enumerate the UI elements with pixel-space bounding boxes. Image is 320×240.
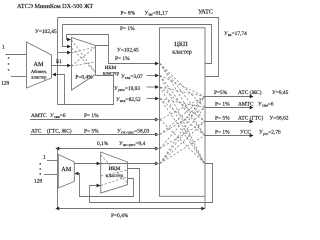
svg-text:ИКМ: ИКМ [105, 65, 117, 71]
arrow into ИКМ Б1 [67, 64, 71, 68]
dashed connection ЦКП w10 [160, 99, 205, 136]
svg-text:АМ: АМ [61, 166, 71, 173]
arrow output АМТС [250, 106, 254, 110]
svg-text:Р=5%: Р=5% [214, 90, 228, 96]
wire loop1 left vertical [57, 18, 59, 105]
wire АМ to ИКМ to ЦКП bottom [74, 163, 158, 165]
svg-text:АТС: АТС [31, 129, 42, 135]
svg-text:ЦКП: ЦКП [174, 41, 188, 48]
svg-text:Р= 5%: Р= 5% [215, 115, 230, 121]
svg-text:(ГТС, ЖС): (ГТС, ЖС) [47, 129, 72, 135]
svg-text:Уисх=82,52: Уисх=82,52 [116, 97, 141, 103]
dashed connection ЦКП w13 [160, 97, 205, 120]
arrow into ИКМ 1 [67, 38, 71, 42]
arrow into АМ feedback [52, 73, 56, 77]
arrow into ЦКП input АТС [155, 133, 159, 137]
svg-text:1: 1 [43, 155, 46, 161]
dashed link bottom d3 [101, 170, 128, 176]
wire left drop vertical [57, 149, 59, 209]
dashed connection ЦКП w8 [160, 87, 205, 97]
arrow output АТС ЖС [250, 95, 254, 99]
dashed connection ЦКП w1 [160, 64, 205, 108]
wire bottom rail to ИКМ input [90, 164, 213, 203]
output line УСС [205, 135, 251, 137]
ИКМ cluster trapezoid bottom [101, 152, 128, 193]
arrow into ИКМ2 left [97, 162, 101, 166]
dashed connection ЦКП w9 [160, 87, 205, 164]
svg-text:Р= 1%: Р= 1% [215, 102, 230, 108]
output line АМТС [205, 107, 251, 109]
АМ abonent cluster trapezoid top [27, 42, 52, 88]
wire subscriber input 128 [11, 76, 27, 78]
wire feedback to АМ [53, 75, 65, 105]
wire loop1 branch into ИКМ [58, 52, 71, 54]
dashed connection ЦКП w22 [160, 136, 205, 164]
wire loop2 left drop [63, 25, 71, 47]
svg-text:АТСЭ МиниКом DX-500 ЖТ: АТСЭ МиниКом DX-500 ЖТ [17, 3, 93, 10]
dashed connection ЦКП w21 [160, 122, 205, 164]
svg-text:АМ: АМ [34, 61, 44, 68]
svg-text:кластер: кластер [31, 76, 47, 81]
svg-text:кластер: кластер [103, 72, 120, 77]
svg-text:УАТС: УАТС [198, 9, 213, 16]
wire ИКМ upper jog [128, 169, 140, 203]
svg-text:АМТС: АМТС [31, 113, 47, 119]
bottom line P=0,4% [58, 208, 206, 210]
dashed connection ЦКП w14 [160, 120, 205, 164]
svg-text:кластер: кластер [172, 50, 192, 56]
dashed connection ЦКП w7 [160, 87, 205, 122]
output line АТС ГТС [205, 121, 251, 123]
arrow into ЦКП input 1 [155, 62, 159, 66]
svg-text:АМТС: АМТС [238, 102, 254, 108]
arrow into ЦКП input 3 [155, 85, 159, 89]
dashed connection ЦКП w2 [160, 64, 205, 122]
arrow into ИКМ 3 [67, 51, 71, 55]
arrow into ЦКП input АМ2 [155, 162, 159, 166]
wire ИКМ output to ЦКП [109, 46, 159, 64]
wire subscriber input 128 bottom [44, 174, 58, 176]
svg-text:АТС (ЖС): АТС (ЖС) [238, 90, 262, 96]
svg-text:Р= 1%: Р= 1% [115, 56, 130, 62]
dashed connection ЦКП w17 [160, 97, 205, 149]
loop P=8% outer wire [58, 18, 219, 77]
wire Б1 АМ to ИКМ [52, 65, 71, 67]
svg-text:УСС: УСС [240, 130, 251, 136]
svg-text:Увх=17,74: Увх=17,74 [224, 31, 247, 37]
wire Уисх into ЦКП [147, 98, 159, 100]
arrow into ЦКП input ЖС [155, 147, 159, 151]
wire rail up to ИКМ2 [90, 186, 101, 203]
svg-text:Утлв=3,07: Утлв=3,07 [121, 74, 143, 80]
ИКМ cluster trapezoid top [72, 38, 96, 91]
dashed connection ЦКП w4 [160, 76, 205, 97]
svg-text:Р= 1%: Р= 1% [215, 130, 230, 136]
wire ЦКП bottom-right stub [204, 196, 206, 208]
svg-text:Р= 8%: Р= 8% [121, 11, 136, 17]
arrow ЖС to left drop [55, 147, 59, 151]
svg-text:У=58,62: У=58,62 [270, 115, 289, 121]
svg-text:Р= 1%: Р= 1% [120, 26, 135, 32]
svg-text:Р= 1%: Р= 1% [84, 113, 99, 119]
arrow into ЦКП input 2 [155, 74, 159, 78]
svg-text:Р= 5%: Р= 5% [84, 129, 99, 135]
svg-text:Абонен.: Абонен. [31, 69, 47, 75]
arrow output АТС ГТС [250, 120, 254, 124]
dashed link bottom d1 [101, 155, 128, 183]
dashed connection ЦКП w11 [160, 99, 205, 108]
arrow into ИКМ2 lower [97, 184, 101, 188]
dashed connection ЦКП w15 [160, 97, 205, 135]
arrow output УСС [250, 134, 254, 138]
ЦКП tall box [160, 28, 206, 197]
dashed connection ЦКП w18 [160, 122, 205, 149]
arrow into АМ2 feedback [75, 172, 79, 176]
dashed connection ЦКП w12 [160, 99, 205, 164]
svg-text:Уусс=2,76: Уусс=2,76 [259, 130, 281, 136]
dashed link d2 [72, 48, 96, 73]
dashed link d5 [72, 62, 96, 66]
dashed connection ЦКП w3 [160, 64, 205, 136]
dashed link bottom d2 [101, 177, 128, 186]
arrow into ИКМ 2 [67, 45, 71, 49]
wire Ууатс into ЦКП [147, 86, 159, 88]
svg-text:128: 128 [34, 179, 42, 185]
dashed link d4 [72, 47, 96, 66]
dashed link d1 [72, 40, 96, 73]
arrow bottom line left [55, 207, 59, 211]
svg-text:ИКМ: ИКМ [108, 166, 120, 172]
svg-text:Б1: Б1 [56, 59, 62, 65]
wire Утлв into ЦКП [147, 75, 159, 77]
svg-text:Р=0,4%: Р=0,4% [111, 213, 129, 219]
svg-text:У=102,45: У=102,45 [35, 29, 57, 35]
small loop P=1% around ИКМ [67, 35, 109, 46]
wire subscriber input 1 [6, 54, 27, 56]
svg-text:У=102,45: У=102,45 [117, 48, 139, 54]
dashed connection ЦКП w5 [160, 76, 205, 136]
output line АТС ЖС [205, 96, 251, 98]
svg-text:АТС (ГТС): АТС (ГТС) [238, 115, 263, 121]
wire subscriber input 1 bottom [47, 160, 58, 162]
wire bottom feedback to АМ [75, 174, 134, 197]
dashed connection ЦКП w6 [160, 76, 205, 164]
arrow into ЦКП input АМТС [155, 118, 159, 122]
dashed link d3 [72, 47, 96, 53]
wire loop bottom of top cluster [58, 76, 114, 105]
svg-text:У=9,45: У=9,45 [272, 90, 289, 96]
arrow into ЦКП input 4 [155, 97, 159, 101]
dashed connection ЦКП w20 [160, 108, 205, 164]
svg-text:Р=0,4%: Р=0,4% [75, 75, 93, 81]
svg-text:128: 128 [1, 81, 9, 87]
svg-text:1: 1 [2, 45, 5, 51]
dashed connection ЦКП w19 [160, 97, 205, 164]
loop P=1% second wire [63, 25, 212, 64]
arrow bottom line right [201, 207, 205, 211]
svg-text:Уам=91,17: Уам=91,17 [145, 11, 169, 17]
svg-text:0,1%: 0,1% [97, 141, 109, 147]
dashed connection ЦКП w16 [160, 108, 205, 135]
АМ cluster trapezoid bottom [58, 155, 74, 189]
